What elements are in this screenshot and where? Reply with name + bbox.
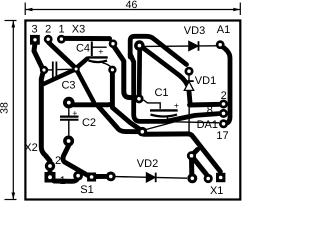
svg-text:VD3: VD3 [184, 25, 205, 37]
wire: node C3-right diagonal down to C2 junction area (none) ; C2-top pad bar right then diagonal to J1 bar [70, 104, 140, 131]
wire: pad H vertical down to C1-left pad [137, 49, 142, 95]
svg-text:1: 1 [60, 175, 66, 187]
dimension line left (38) [5, 21, 17, 200]
wire: C2-bottom pad diagonal down to S1 square pad [63, 146, 88, 176]
diode VD1 label [195, 75, 216, 87]
label 2 (DA1 pin 2) [221, 90, 227, 102]
wire: pad X3-3 down to node C3-left, down left side to X2-2 pad [34, 43, 50, 161]
svg-text:38: 38 [0, 102, 11, 114]
board outline [25, 21, 240, 200]
svg-text:+: + [72, 108, 77, 118]
label 1 (X2 pin 1) [60, 175, 66, 187]
svg-text:X3: X3 [72, 24, 85, 36]
wire: node C3-right diagonal down-left to X2 trunk [44, 59, 95, 103]
wire: pad X3-1 right to pad C4-right, diagonal down, vertical to C1-left pad [63, 38, 137, 98]
svg-text:2: 2 [55, 155, 61, 167]
dimension label 38 [0, 102, 11, 114]
svg-text:1: 1 [58, 24, 64, 36]
pad C1-left [134, 94, 143, 103]
capacitor C4 plus sign [98, 47, 103, 57]
svg-text:VD1: VD1 [195, 75, 216, 87]
pad X1-3 (square) [216, 173, 225, 182]
pad C4-bottom [108, 66, 116, 74]
svg-text:X2: X2 [24, 142, 37, 154]
wire: hook around pad H, diagonal (a) to VD1-top pad, leg down to pad-8 bar, bar to pad 8 [130, 36, 219, 121]
svg-text:X1: X1 [210, 185, 223, 197]
wire: diagonal (b) from pad H down to pad 2 [143, 48, 190, 105]
svg-text:C4: C4 [76, 42, 90, 54]
svg-text:8: 8 [207, 105, 213, 117]
svg-text:C1: C1 [154, 87, 168, 99]
capacitor C1 label [154, 87, 168, 99]
pad 2 [219, 100, 228, 109]
capacitor C2 label [82, 117, 96, 129]
capacitor C3 symbol [48, 62, 73, 79]
diode VD2 label [137, 158, 158, 170]
capacitor C1 symbol [144, 100, 178, 121]
pad C2-bottom [63, 136, 74, 147]
capacitor C2 symbol [60, 109, 79, 136]
pad J1 (jumper left) [138, 127, 148, 137]
label 2 (X2 pin 2) [55, 155, 61, 167]
svg-text:DA1: DA1 [197, 119, 218, 131]
pad 8 [219, 109, 228, 118]
label DA1 [197, 119, 218, 131]
pad X2-1 (square) [45, 172, 56, 183]
wire: X2-2 pad to X2-1 square pad link [48, 167, 53, 174]
svg-text:VD2: VD2 [137, 158, 158, 170]
pad C3-right [72, 65, 79, 72]
pad A1 [216, 40, 225, 49]
diode VD1 symbol (triangle white over trace) [184, 74, 193, 134]
wire: pad-2 horizontal bar [190, 102, 220, 108]
diode VD3 symbol [145, 41, 217, 51]
pad K (VD2 net corner) [187, 151, 196, 160]
svg-text:2: 2 [45, 24, 51, 36]
wire: pad C4-bottom vertical down, diagonal to J1 pad [112, 73, 141, 131]
svg-text:C2: C2 [82, 117, 96, 129]
capacitor C3 label [61, 80, 75, 92]
wire: S1 square pad to S1 right pad [95, 174, 108, 179]
diode VD3 label [184, 25, 205, 37]
pad X2-2 [45, 161, 55, 171]
svg-text:S1: S1 [80, 184, 93, 196]
pad H (hook pad) [134, 40, 145, 51]
label X1 [210, 185, 223, 197]
label S1 [80, 184, 93, 196]
label 17 [216, 130, 228, 142]
capacitor C1 plus sign [174, 100, 179, 110]
pad S1-right [106, 172, 116, 182]
pad X3-3 (square) [30, 35, 40, 45]
pad X3-2 [44, 35, 53, 44]
label 8 (DA1 pin 8) [207, 105, 213, 117]
svg-text:2: 2 [221, 90, 227, 102]
svg-text:+: + [98, 47, 103, 57]
pad C2-top [63, 97, 75, 109]
capacitor C4 label [76, 42, 90, 54]
pad S1-left [73, 171, 83, 181]
dimension label 46 [126, 0, 138, 11]
pad VD1-top [185, 67, 194, 76]
label A1 [217, 24, 230, 36]
wire: X2-1 square pad right to S1 left pad [54, 178, 78, 181]
svg-text:17: 17 [216, 130, 228, 142]
connector X3 labels: 3 2 1 X3 [31, 24, 85, 36]
pad X1-2 [204, 174, 213, 183]
pad X3-1 [57, 35, 66, 44]
svg-text:3: 3 [31, 24, 37, 36]
dimension line top (46) [25, 3, 240, 16]
wire: J1 bar right, corner, 45-degree diagonal down to X1-3 square pad; stub to pad K; K vertical to VD2-right pad; K diagonal to X1-2 pad [144, 134, 220, 175]
label X2 [24, 142, 37, 154]
diode VD2 symbol [116, 173, 188, 183]
wire: pad X3-2 diagonal to node C3-right [49, 43, 75, 68]
wire: A1 pad diagonal, vertical down right side, hook into pad 17 [222, 47, 230, 124]
capacitor C2 plus sign [72, 108, 77, 118]
svg-text:C3: C3 [61, 80, 75, 92]
svg-text:A1: A1 [217, 24, 230, 36]
pad 17 (DA1) [219, 119, 228, 128]
svg-text:+: + [174, 100, 179, 110]
pad C4-right [109, 39, 118, 48]
jumper wire J1 pad to pad 17 (thin) [146, 122, 219, 130]
pad C3-left [40, 66, 48, 74]
pad S1-mid (square) [87, 173, 96, 182]
pad VD2-right / X1-1 [187, 173, 197, 183]
capacitor C4 symbol [88, 42, 112, 68]
